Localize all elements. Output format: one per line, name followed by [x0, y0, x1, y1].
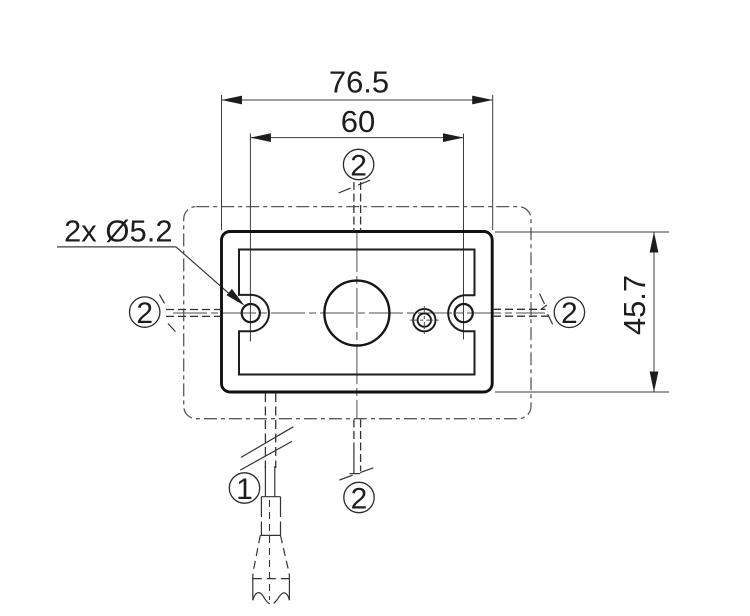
- dimension 76.5 arrow left: [222, 96, 243, 105]
- plug break wave right hump: [278, 593, 290, 601]
- vertical centerline: [356, 232, 358, 419]
- svg-text:76.5: 76.5: [329, 65, 389, 100]
- balloon 2 top: [343, 149, 373, 179]
- svg-text:45.7: 45.7: [617, 275, 652, 335]
- dimension 60 extension line right: [463, 134, 465, 340]
- svg-text:2: 2: [136, 297, 153, 330]
- right wire break slash upper: [540, 294, 545, 305]
- plug widest dashed line: [253, 578, 290, 580]
- left wire break slash lower: [168, 324, 175, 332]
- right wire hidden lines: [493, 308, 546, 310]
- dimension 76.5 line: [222, 99, 493, 101]
- top cable break slash: [339, 179, 373, 193]
- right wire end tick: [541, 305, 548, 310]
- balloon 1: [229, 473, 259, 503]
- plug lower left side: [252, 579, 254, 601]
- leader arrowhead: [227, 289, 245, 306]
- dimension 45.7 arrow top: [650, 232, 659, 253]
- horizontal centerline: [173, 312, 545, 314]
- plug break wave left hump: [253, 593, 265, 601]
- svg-text:2x Ø5.2: 2x Ø5.2: [64, 214, 173, 249]
- plug centerline dashed: [269, 500, 271, 600]
- plug flare right side dashed: [281, 535, 290, 578]
- center hole: [324, 281, 389, 346]
- small boss outer circle: [413, 309, 435, 331]
- svg-text:2: 2: [351, 482, 368, 515]
- small boss inner circle: [418, 313, 431, 326]
- svg-text:2: 2: [561, 297, 578, 330]
- phantom mounting outline: [184, 207, 531, 419]
- small boss centerline vertical: [423, 306, 425, 334]
- dimension 45.7 arrow bottom: [650, 372, 659, 393]
- inner wall outline with keyhole notches: [239, 250, 475, 375]
- leader line: [57, 247, 238, 302]
- body outline: [222, 232, 493, 393]
- svg-text:60: 60: [341, 104, 375, 139]
- dimension 76.5 arrow right: [472, 96, 493, 105]
- bottom cable 2 end tick: [350, 473, 361, 475]
- dimension 45.7 line: [653, 232, 655, 392]
- balloon 2 bottom: [344, 482, 374, 512]
- balloon 2 right: [554, 297, 584, 327]
- plug flare left side dashed: [253, 535, 260, 578]
- dimension 60 line: [250, 137, 463, 139]
- dimension 60 extension line left: [249, 134, 251, 342]
- dimension 60 arrow left: [250, 133, 271, 142]
- plug junction line: [260, 534, 280, 536]
- plug upper body left side: [260, 497, 262, 510]
- cable 1 hidden lines: [264, 393, 266, 468]
- bottom cable 2 break slash: [340, 467, 376, 480]
- plug lower right side: [288, 579, 290, 601]
- cable 1 break slash upper: [241, 427, 294, 458]
- right wire break slash lower: [548, 314, 553, 324]
- dimension 76.5 extension line right: [492, 95, 494, 230]
- balloon 2 left: [130, 297, 160, 327]
- top cable hidden lines: [353, 182, 355, 231]
- plug break wave middle dip dashed: [265, 599, 278, 604]
- right hole Ø5.2: [455, 304, 473, 322]
- bottom cable 2 hidden lines: [353, 420, 355, 445]
- svg-text:2: 2: [350, 149, 367, 182]
- dimension 45.7 extension line top: [495, 231, 669, 233]
- left hole Ø5.2: [242, 304, 260, 322]
- svg-text:1: 1: [236, 473, 253, 506]
- left wire hidden lines: [166, 309, 221, 311]
- dimension 45.7 extension line bottom: [495, 391, 669, 393]
- dimension 76.5 extension line left: [221, 95, 223, 230]
- small boss centerline horizontal: [410, 319, 438, 321]
- cable 1 break slash lower: [240, 441, 292, 470]
- left wire break slash upper: [159, 294, 164, 303]
- plug upper body top edge: [261, 496, 280, 498]
- plug upper body right side: [280, 497, 282, 510]
- dimension 60 arrow right: [443, 133, 464, 142]
- cable 1 solid end segment: [264, 466, 266, 497]
